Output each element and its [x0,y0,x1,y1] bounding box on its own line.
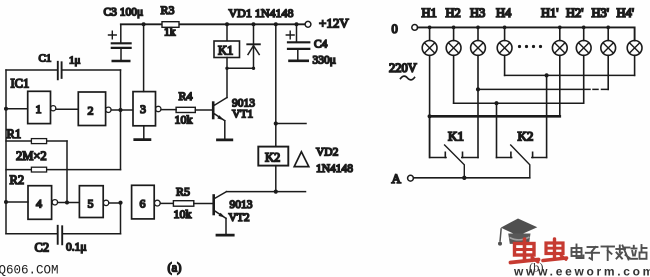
node rail-K1 [225,22,229,26]
node rail-K2 [274,22,278,26]
svg-text:IC1: IC1 [11,77,30,91]
resistor R2 [6,169,121,171]
wire H2p-drop [583,55,585,103]
svg-text:H4': H4' [617,6,635,20]
svg-text:C1: C1 [39,53,52,65]
svg-text:R4: R4 [179,89,193,103]
svg-text:R1: R1 [7,127,22,141]
wire H4-drop [504,55,506,75]
wire gate2-gate3 [111,109,133,111]
gate 6 [132,185,155,219]
relay-coil K2 [275,24,277,146]
node bus-H3 [476,26,480,30]
wire C1-R2-node [120,70,122,170]
wire A-rail [414,177,530,179]
svg-text:A: A [392,171,402,186]
wire K2-left-drop [496,103,498,157]
svg-text:10k: 10k [175,113,193,127]
ground VT1 [218,138,232,141]
node rail1-K2r [545,73,549,77]
svg-text:VD1 1N4148: VD1 1N4148 [229,6,294,20]
gate 4 [28,186,52,220]
gate 1 [28,91,51,123]
node A-K1 [462,176,466,180]
resistor R3 [162,22,179,28]
capacitor C3 [120,24,122,42]
capacitor C2 [6,233,57,235]
gate 5 [79,186,103,218]
ground C3 [113,60,129,63]
logo bug1 [511,239,539,263]
wire gate6-R5 [160,202,173,204]
ground gate3 [143,126,145,139]
terminal +12V [305,21,311,27]
svg-text:+12V: +12V [319,16,349,31]
svg-text:H3': H3' [592,6,610,20]
svg-text:330μ: 330μ [313,55,336,67]
node H3-rail2 [476,87,480,91]
lamp H4' [627,41,642,56]
node rail-VD1 [252,22,256,26]
wire H3-drop [477,55,479,157]
svg-text:10k: 10k [174,207,192,221]
wire VT2-collector [227,191,306,193]
svg-text:1μ: 1μ [69,55,81,67]
wire left-bus [5,70,7,234]
svg-text:(a): (a) [168,261,182,275]
wire K2-stub [276,123,306,125]
wire R1-down [66,141,68,203]
resistor R1 [6,140,67,142]
node bus-H1 [428,26,432,30]
resistor R4 [176,107,195,112]
svg-text:R5: R5 [176,185,190,199]
svg-text:4: 4 [36,197,42,211]
node bus-H2 [452,26,456,30]
svg-text:1k: 1k [164,27,176,39]
svg-text:H2: H2 [446,6,461,20]
wire H1p-drop [559,55,561,116]
ground C4 [290,59,308,62]
wire rail3 [454,102,584,104]
node rail-gate3 [142,22,146,26]
wire gate1-gate2 [56,108,79,110]
diode VD2 [294,152,309,167]
svg-text:K2: K2 [265,151,280,165]
svg-text:0.1μ: 0.1μ [66,242,87,254]
lamp H2 [453,27,455,40]
wire K2-right-drop [546,75,548,157]
wire rail4 [430,115,560,118]
svg-text:R3: R3 [161,3,175,17]
wire rail1 [505,74,635,76]
relay-coil K1 [226,24,228,41]
svg-text:K1: K1 [448,129,464,144]
capacitor C1 [6,69,57,71]
node rail3-K2l [494,101,498,105]
svg-text:K1: K1 [218,44,233,58]
lamp H3 [477,27,479,40]
node bus-H2p [582,26,586,30]
svg-text:6: 6 [140,197,146,211]
svg-text:3: 3 [140,102,146,116]
wire H3p-drop [607,55,609,89]
svg-text:H3: H3 [470,6,485,20]
svg-text:H2': H2' [566,6,584,20]
gate 2 [78,92,105,126]
lamp H3' [607,27,609,40]
capacitor C4 [296,24,298,41]
svg-text:1: 1 [36,102,42,116]
node H1-rail4 [428,114,432,118]
gate 3 [133,92,156,126]
wire H4p-drop [634,55,636,75]
svg-text:C3 100μ: C3 100μ [104,7,144,19]
svg-text:C4: C4 [314,39,328,51]
svg-text:VT2: VT2 [229,212,250,224]
node bus-H1p [558,26,562,30]
svg-text:VD2: VD2 [316,147,339,159]
resistor R5 [173,201,193,207]
svg-text:H1: H1 [422,6,437,20]
wire H2-drop [453,55,455,103]
svg-text:K2: K2 [518,129,534,144]
wire H1-drop [429,55,431,157]
wire rail2 [478,88,608,90]
lamp H1' [559,27,561,40]
node bus-H3p [606,26,610,30]
transistor VT1 [212,103,215,118]
lamp H2' [583,27,585,40]
svg-text:2M×2: 2M×2 [16,149,47,163]
svg-text:220V: 220V [389,61,417,75]
svg-text:5: 5 [88,197,94,211]
diode VD1 [253,24,255,68]
lamp H1 [429,27,431,40]
svg-text:www.eeworm.com: www.eeworm.com [513,265,650,277]
wire +12V rail [121,23,307,25]
wire K1-to-VT1-collector [226,68,228,97]
svg-text:Q606.COM: Q606.COM [0,264,59,277]
svg-text:H1': H1' [541,6,559,20]
svg-text:VT1: VT1 [232,109,253,121]
wire gate3-Vdd [143,24,145,91]
svg-text:C2: C2 [35,241,50,255]
lamp H4 [504,27,506,40]
transistor VT2 [212,196,215,215]
logo graduation-cap [501,219,538,236]
logo bug2 [543,239,567,261]
svg-text:R2: R2 [10,173,25,187]
logo text dianzi-xiazai-zhan [572,245,647,261]
svg-text:0: 0 [392,22,398,36]
wire gate4-gate5 [58,202,80,204]
wire gate5-out [109,202,121,204]
svg-text:9013: 9013 [230,199,253,211]
svg-text:2: 2 [88,104,94,118]
svg-text:1N4148: 1N4148 [316,163,353,175]
node rail-C4 [295,22,299,26]
svg-text:H4: H4 [496,6,512,20]
WATERMARK [498,219,650,277]
wire top-bus [418,27,635,40]
RIGHT-CIRCUIT [389,6,642,186]
dots ellipsis [518,45,521,48]
node bus-H4 [503,26,507,30]
ground VT2 [217,234,233,237]
